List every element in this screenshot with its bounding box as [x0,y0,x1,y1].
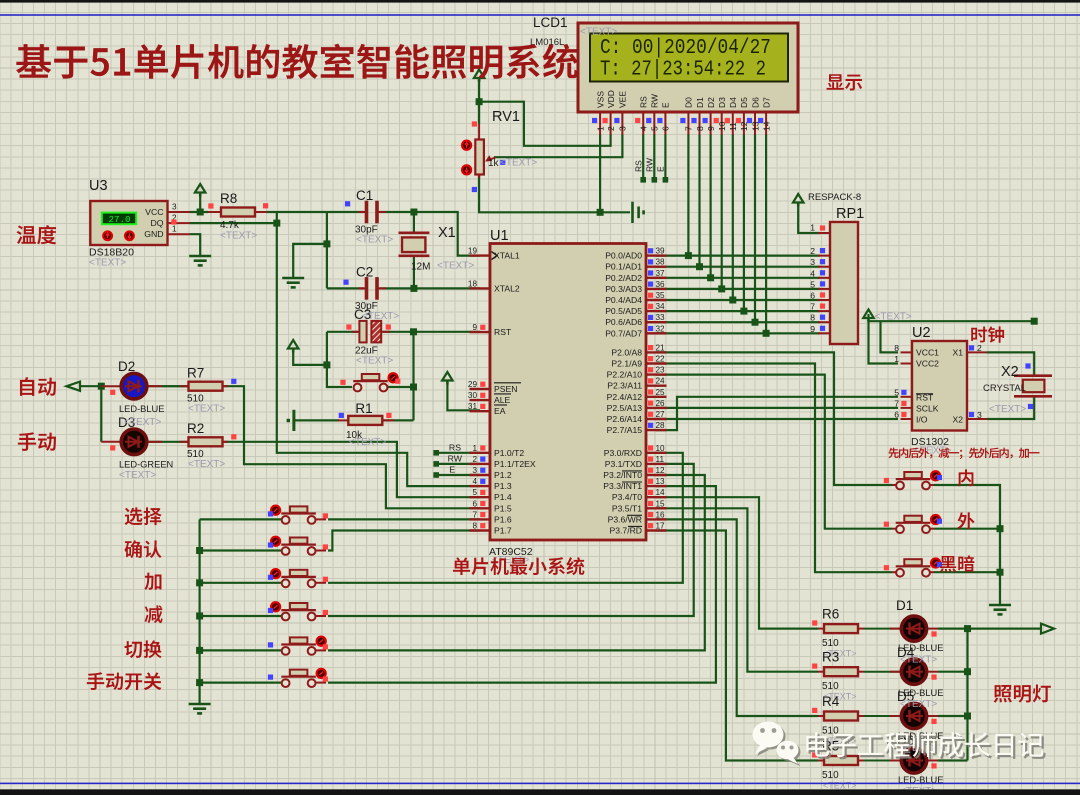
svg-text:2: 2 [810,246,815,256]
svg-text:6: 6 [894,410,899,420]
wire P2.1 pin22 to dark button [656,364,892,573]
label shoudong manual [18,432,56,451]
svg-text:25: 25 [656,388,666,397]
svg-text:DQ: DQ [150,218,163,228]
svg-text:P2.2/A10: P2.2/A10 [607,370,643,380]
LCD pin stubs and numbers [599,112,601,135]
wire C1 row to X1 junction and XTAL1 [327,211,364,213]
wire D2 auto arrow to LED [80,385,103,387]
svg-text:RW: RW [650,94,660,108]
wire LCD D3 pin10 to P0.3 bus [721,134,723,289]
svg-text:RST: RST [494,327,512,337]
svg-text:3: 3 [810,257,815,267]
label xuanze select [125,507,162,525]
svg-text:1: 1 [472,444,477,453]
wire RV1 top to LCD VDD pin2 [479,102,610,146]
wire P2.5 pin26 to DS1302 SCLK [656,407,898,409]
svg-text:P3.1/TXD: P3.1/TXD [605,459,642,469]
wire P0.5 row to RP1 pin7 [656,310,820,312]
svg-text:<TEXT>: <TEXT> [500,158,537,169]
wire button row left [200,649,283,651]
wire RS terminal to pin1 [436,452,480,454]
svg-text:38: 38 [656,258,666,267]
wire RP1 pin1 to VCC arrow [798,202,820,233]
svg-text:P0.2/AD2: P0.2/AD2 [605,273,642,283]
capacitor C3 electrolytic [352,331,360,333]
wire LCD D5 pin12 to P0.5 bus [743,134,745,311]
svg-text:9: 9 [706,126,716,131]
resistor pack RP1 RESPACK-8 [830,222,858,344]
wire RW terminal to pin2 [436,463,480,465]
wire P3.4 pin14 to lamp row 1 [656,497,818,628]
LED D1 lamp [864,628,902,630]
wire P3.0 pin10 to select button row [328,453,683,583]
resistor R2 [180,441,190,443]
U2 pin stubs left [901,351,913,353]
svg-text:18: 18 [468,279,478,288]
svg-text:P3.5/T1: P3.5/T1 [612,503,642,513]
svg-text:RP1: RP1 [836,206,864,222]
wire R8 tap down to DQ row [276,212,278,223]
svg-text:35: 35 [656,291,666,300]
wire P3.5 pin15 to lamp row 2 [656,508,818,671]
svg-text:33: 33 [656,313,666,322]
svg-text:P0.3/AD3: P0.3/AD3 [605,284,642,294]
watermark text [809,734,1046,759]
svg-text:LED-BLUE: LED-BLUE [119,404,164,414]
wire C2 row to X1 bottom and XTAL2 [327,287,364,289]
title text [16,44,578,79]
RP1 pin stubs [818,232,830,234]
svg-text:X2: X2 [952,414,963,424]
svg-text:1: 1 [810,223,815,233]
svg-text:37: 37 [656,269,666,278]
svg-text:R4: R4 [822,694,840,709]
svg-text:<TEXT>: <TEXT> [356,356,393,367]
svg-text:27: 27 [656,410,666,419]
label danpianji minimal system [453,557,584,575]
svg-text:T: 27|23:54:22 2: T: 27|23:54:22 2 [600,59,766,82]
svg-text:<TEXT>: <TEXT> [119,470,156,481]
svg-text:24: 24 [656,377,666,386]
wire C3 left plate to VCC arrow path [327,331,358,333]
svg-text:16: 16 [656,510,666,519]
push button 选择 [283,518,288,520]
wire lamp LED right bus [938,629,968,761]
svg-text:P3.4/T0: P3.4/T0 [612,492,642,502]
svg-text:4: 4 [810,268,815,278]
wire P3.6 pin16 to lamp row 3 [656,519,818,716]
svg-text:E: E [661,102,671,108]
resistor R8 [208,211,221,213]
svg-text:P1.7: P1.7 [494,526,512,536]
wire button row left [200,549,283,551]
svg-text:8: 8 [695,126,705,131]
svg-text:P0.5/AD5: P0.5/AD5 [605,306,642,316]
svg-text:36: 36 [656,280,666,289]
svg-text:P1.0/T2: P1.0/T2 [494,448,524,458]
RV1 wiper arrow [487,157,496,161]
power arrow C3 feed [288,340,299,349]
svg-text:1k: 1k [488,158,500,169]
push button 黑暗 [892,571,900,573]
svg-text:D1: D1 [695,97,705,108]
LED D2 blue auto [101,385,122,387]
ground rotated right of VSS row [631,202,634,223]
svg-text:<TEXT>: <TEXT> [188,404,225,415]
wire inner outer dark buttons right bus [934,485,1000,605]
svg-text:<TEXT>: <TEXT> [989,404,1026,415]
svg-text:RS: RS [449,442,461,452]
svg-text:<TEXT>: <TEXT> [900,699,937,710]
svg-text:9: 9 [810,324,815,334]
svg-text:8: 8 [894,343,899,353]
svg-text:8: 8 [810,313,815,323]
svg-text:RW: RW [448,454,463,464]
svg-text:RW: RW [645,158,655,172]
wire LCD VSS pin1 down to ground row [599,134,601,212]
crystal X1 [399,232,430,235]
svg-text:GND: GND [144,229,163,239]
svg-text:P1.1/T2EX: P1.1/T2EX [494,459,536,469]
svg-text:<TEXT>: <TEXT> [900,655,937,666]
push button 手动开关 [283,682,288,684]
wire button row left [200,681,283,683]
svg-text:510: 510 [822,681,839,692]
svg-text:19: 19 [468,247,478,256]
wire C3/RST junction down to button and R1 [412,332,414,421]
svg-text:P1.5: P1.5 [494,503,512,513]
svg-text:ALE: ALE [494,395,511,405]
svg-text:<TEXT>: <TEXT> [188,459,225,470]
svg-text:1: 1 [172,225,177,234]
svg-text:13: 13 [656,477,666,486]
ground below right buttons [989,604,1011,607]
svg-text:VDD: VDD [606,90,616,108]
top blue line [0,14,1080,16]
svg-text:VCC: VCC [145,207,163,217]
ground below U3 [189,255,211,258]
svg-text:510: 510 [822,770,839,781]
svg-text:R1: R1 [355,401,372,416]
svg-text:5: 5 [894,387,899,397]
svg-text:P3.7/RD: P3.7/RD [610,526,642,536]
reset push button [362,374,380,380]
svg-text:VCC2: VCC2 [916,359,939,369]
svg-text:D7: D7 [761,97,771,108]
svg-text:P2.6/A14: P2.6/A14 [607,414,643,424]
svg-text:P1.4: P1.4 [494,492,512,502]
label jia plus [144,573,161,590]
terminal RW [433,461,439,467]
svg-text:R3: R3 [822,650,839,665]
temperature sensor U3 DS18B20 [90,201,167,245]
svg-text:29: 29 [468,380,478,389]
wire P2.6 pin27 to DS1302 IO [656,418,898,420]
wire U3 VCC pin3 to R8 [190,211,208,213]
svg-text:X1: X1 [438,225,456,241]
svg-text:P2.5/A13: P2.5/A13 [607,403,643,413]
svg-text:34: 34 [656,302,666,311]
push button 确认 [283,550,288,552]
svg-text:R7: R7 [187,366,204,381]
wire button row left [200,615,283,617]
svg-text:5: 5 [810,279,815,289]
svg-text:15: 15 [656,499,666,508]
svg-text:3: 3 [618,126,628,131]
resistor R4 [818,715,825,717]
svg-text:6: 6 [661,126,671,131]
wire P0.4 row to RP1 pin6 [656,299,820,301]
push button 内 [892,484,900,486]
svg-text:P0.7/AD7: P0.7/AD7 [605,328,642,338]
svg-text:P1.3: P1.3 [494,481,512,491]
svg-text:7: 7 [684,126,694,131]
label wai outer [957,512,974,529]
svg-text:E: E [656,166,666,172]
capacitor C1 [358,211,366,213]
label queren confirm [125,540,162,558]
svg-text:7: 7 [810,302,815,312]
svg-text:P1.2: P1.2 [494,470,512,480]
svg-text:R8: R8 [220,191,237,206]
terminal E [433,472,439,478]
svg-text:7: 7 [472,510,477,519]
wire LCD E pin6 stub [664,134,666,179]
label wendu temperature [17,225,57,244]
wire P2.7 pin28 to DS1302 RST [656,397,898,430]
resistor R3 [818,671,825,673]
wire branch to middle ground [293,244,327,278]
wire P3.1 pin11 to minus button row [328,464,694,616]
svg-text:32: 32 [656,324,666,333]
ground below left buttons [189,703,211,706]
svg-text:D3: D3 [717,97,727,108]
svg-text:U2: U2 [912,325,931,341]
microcontroller U1 AT89C52 [490,244,646,541]
resistor R7 [162,385,190,387]
wire LCD RW pin5 stub [653,134,655,179]
watermark wechat icon [753,722,801,767]
svg-text:X1: X1 [952,348,963,358]
wire U2 VCC arrow rail [869,314,899,364]
svg-text:P2.1/A9: P2.1/A9 [611,359,642,369]
label nei inner [959,469,974,486]
label zhaomingdeng lamps [994,684,1051,702]
svg-text:LCD1: LCD1 [533,15,568,30]
svg-text:XTAL2: XTAL2 [494,283,520,293]
junction dots [197,209,204,216]
svg-text:D0: D0 [684,97,694,108]
wire select row to pin7 P1.6 [328,518,480,520]
svg-text:28: 28 [656,421,666,430]
wire P0.1 row to RP1 pin3 [656,266,820,268]
arrow right lamp output [1041,624,1054,634]
svg-text:510: 510 [822,638,839,649]
svg-text:R2: R2 [187,421,204,436]
wire P3.3 pin13 to manual button row [328,486,716,682]
U3 pin stubs [168,211,191,213]
svg-text:9: 9 [472,323,477,332]
svg-text:VEE: VEE [618,91,628,108]
wire EA VCC arrow to pin31 [447,380,480,410]
svg-text:I/O: I/O [916,414,928,424]
wire R7 to U1 pin6 P1.5 [224,386,480,508]
wire LCD D4 pin11 to P0.4 bus [732,134,734,300]
ground middle left [282,277,304,280]
power arrow U2 [863,310,874,319]
svg-text:VCC1: VCC1 [916,348,939,358]
wire C1-C2 left vertical [326,212,328,288]
wire P2.0 pin21 to inner button [656,352,892,485]
svg-text:X2: X2 [1001,364,1019,380]
svg-text:2: 2 [472,455,477,464]
potentiometer RV1 [478,124,480,141]
power arrow above RV1 [474,70,485,79]
push button 切换 [283,649,288,651]
svg-text:D4: D4 [728,97,738,108]
svg-text:RESPACK-8: RESPACK-8 [808,192,861,203]
svg-text:D5: D5 [739,97,749,108]
terminal squares RS RW E [640,177,646,183]
svg-text:P3.3/INT1: P3.3/INT1 [603,481,642,491]
svg-text:<TEXT>: <TEXT> [356,235,393,246]
wire D3 to R2 [146,441,190,443]
label qiehuan toggle [124,640,161,658]
LCD display LCD1 LM016L [578,23,798,112]
svg-text:RS: RS [639,96,649,108]
svg-text:P0.1/AD1: P0.1/AD1 [605,262,642,272]
capacitor C2 [358,287,366,289]
U1 XTAL1 clock mark [492,252,498,260]
wire U3 DQ long route to U1 pin4 P1.3 [190,223,480,486]
svg-text:VSS: VSS [595,91,605,108]
wire D2 to R7 [146,385,190,387]
svg-text:C1: C1 [356,188,373,203]
svg-text:12M: 12M [411,262,430,273]
U1 overlines INT0 INT1 WR RD [622,470,642,472]
label jian minus [144,605,162,623]
svg-text:D1: D1 [896,598,913,613]
svg-text:10: 10 [656,444,666,453]
wire P0.3 row to RP1 pin5 [656,288,820,290]
svg-text:P2.4/A12: P2.4/A12 [607,392,643,402]
svg-text:4: 4 [472,477,477,486]
power arrow RP1 [793,194,804,203]
svg-text:6: 6 [810,291,815,301]
svg-text:P0.6/AD6: P0.6/AD6 [605,317,642,327]
U2 pin stubs right [967,351,987,353]
svg-text:P2.7/A15: P2.7/A15 [607,425,643,435]
svg-text:<TEXT>: <TEXT> [580,27,617,38]
bottom blue line [0,783,1080,785]
clock chip U2 DS1302 [912,341,967,431]
wire left button bus [199,519,201,704]
svg-text:D6: D6 [750,97,760,108]
wire button row left [200,582,283,584]
wire R2 to U1 pin5 P1.4 [224,442,480,497]
wire LCD D2 pin9 to P0.2 bus [709,134,711,278]
label shizhong clock [971,326,1004,342]
wire LCD D6 pin13 to P0.6 bus [754,134,756,322]
svg-text:4.7k: 4.7k [220,220,240,231]
wire X2 crystal bottom [987,396,1034,419]
wire U3 GND to ground [190,234,201,256]
wire D2-D3 left vertical [100,386,102,442]
wire X2 crystal top [987,352,1034,375]
svg-text:39: 39 [656,247,666,256]
svg-text:RS: RS [633,160,643,172]
wire R1 left to power bar [295,419,339,421]
arrow left auto row [67,382,81,391]
LED D6 lamp [864,760,902,762]
terminal RS [433,450,439,456]
svg-text:2: 2 [606,126,616,131]
svg-text:P2.3/A11: P2.3/A11 [607,381,642,391]
wire P2.2 pin23 to outer button [656,375,892,529]
svg-text:5: 5 [650,126,660,131]
U1 overlines PSEN ALE EA [494,382,521,384]
wire C3 right plate to RST pin9 [383,331,480,333]
resistor R1 [338,419,349,421]
svg-text:7: 7 [894,398,899,408]
svg-text:23: 23 [656,366,666,375]
svg-text:3: 3 [977,410,982,420]
wire VCC junction down to reset button [327,365,352,387]
push button 加 [283,582,288,584]
wire reset button right to junction [388,386,414,388]
svg-text:P0.0/AD0: P0.0/AD0 [605,251,642,261]
push button 外 [892,528,900,530]
LED D5 lamp [864,715,902,717]
svg-text:22: 22 [656,355,666,364]
wire P0.7 row to RP1 pin9 [656,332,820,334]
svg-text:3: 3 [172,203,177,212]
wire R1 right to junction column [380,419,414,421]
wire RV1 VCC arrow stem [478,79,480,124]
crystal X2 [1014,374,1052,377]
wire RV1 bottom to ground row [479,175,630,212]
power arrow above R8 [195,184,206,193]
wire RV1 wiper to LCD VEE pin3 [494,134,622,157]
wire P3.2 pin12 to toggle button row [328,475,705,650]
svg-text:<TEXT>: <TEXT> [89,258,126,269]
svg-text:26: 26 [656,399,666,408]
svg-text:27.0: 27.0 [108,214,130,225]
svg-text:14: 14 [656,488,666,497]
wire P0.0 row to RP1 pin2 [656,255,820,257]
wire LCD RS pin4 stub [642,134,644,179]
svg-text:31: 31 [468,402,478,411]
svg-text:LED-GREEN: LED-GREEN [119,460,173,470]
svg-text:1: 1 [595,126,605,131]
label xianshi display [827,74,862,90]
U1 left pin stubs [470,254,491,256]
svg-text:5: 5 [472,488,477,497]
svg-text:C: 00|2020/04/27: C: 00|2020/04/27 [600,37,771,60]
bottom black bar [0,789,1080,795]
svg-text:12: 12 [656,466,666,475]
svg-text:RV1: RV1 [492,109,520,125]
label heian dark [940,555,975,572]
svg-text:C2: C2 [356,264,373,279]
svg-text:<TEXT>: <TEXT> [349,437,386,448]
svg-text:P2.0/A8: P2.0/A8 [611,347,642,357]
power arrow EA [442,372,453,381]
svg-text:2: 2 [977,343,982,353]
label shoudong kaiguan manual switch [87,672,162,690]
svg-text:<TEXT>: <TEXT> [124,417,161,428]
